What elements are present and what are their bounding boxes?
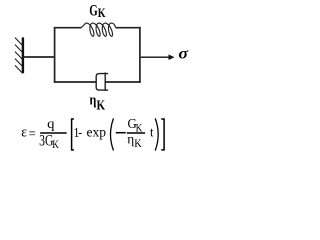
svg-text:3G: 3G — [39, 132, 53, 149]
equation left bracket — [72, 119, 74, 150]
svg-text:q: q — [47, 116, 54, 132]
svg-text:t: t — [150, 124, 154, 140]
svg-text:σ: σ — [178, 45, 189, 63]
equation fraction bar GK/etaK — [127, 132, 145, 134]
equation fraction bar q/3GK — [40, 132, 67, 134]
svg-text:K: K — [98, 7, 106, 20]
equation big close paren — [155, 118, 158, 150]
wire top right segment — [116, 27, 141, 29]
dashpot piston — [104, 72, 106, 91]
svg-text:η: η — [90, 91, 97, 108]
equation minus sign — [116, 132, 126, 134]
equation right bracket — [161, 119, 164, 150]
wire left bar — [54, 27, 56, 83]
svg-text:=: = — [29, 126, 36, 142]
wall line — [22, 37, 24, 73]
wire top left segment — [54, 27, 82, 29]
wire right bar — [139, 27, 141, 83]
dashpot rod wire — [105, 81, 141, 83]
wall hatching — [15, 38, 23, 74]
svg-text:K: K — [134, 138, 142, 151]
wire bottom left segment — [54, 81, 96, 83]
svg-text:K: K — [52, 139, 59, 151]
svg-text:ε: ε — [21, 125, 27, 141]
svg-text:-: - — [78, 124, 82, 139]
wire wall to left bar — [24, 56, 56, 58]
stress arrow shaft — [141, 56, 169, 58]
dashpot cylinder — [96, 74, 108, 91]
spring GK coil — [81, 23, 116, 36]
stress arrow head — [169, 54, 175, 60]
svg-text:η: η — [127, 131, 134, 146]
svg-text:exp: exp — [87, 124, 107, 139]
equation big open paren — [111, 118, 114, 150]
svg-text:K: K — [97, 97, 106, 112]
svg-text:G: G — [89, 1, 98, 18]
